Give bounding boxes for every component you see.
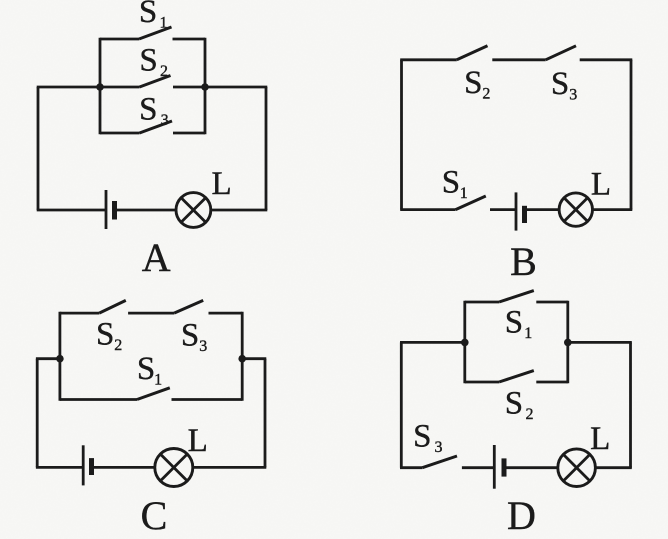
switch S1 (circuit B): blade, wire [456,196,516,210]
svg-text:A: A [142,235,171,280]
wire D bottom left [400,466,422,469]
wire A bottom right [211,209,267,212]
wire B top left [400,58,457,61]
svg-text:2: 2 [114,337,122,354]
svg-text:1: 1 [524,325,532,342]
svg-text:2: 2 [482,86,490,103]
switch S2 (circuit A): wire, blade [100,76,205,88]
svg-text:3: 3 [161,112,169,129]
wire C bottom left [36,466,83,469]
svg-text:S: S [139,92,157,128]
label S2 (circuit D) [505,386,534,424]
battery (circuit D) [494,445,558,489]
wire D left connector of parallel branches [463,301,466,384]
battery (circuit C) [83,445,155,485]
wire B bottom right [593,208,633,211]
lamp L (circuit C) [155,449,193,487]
svg-text:3: 3 [199,338,207,355]
node D-left junction [461,339,469,347]
wire C right vertical [264,359,267,468]
wire A right connector of parallel switches [204,38,207,135]
switch S1 (circuit C): wire, blade, wire [60,388,242,400]
node C-right junction [238,355,246,363]
svg-text:2: 2 [526,406,534,423]
switch S2 (circuit B): blade, wire [457,46,546,60]
svg-text:L: L [212,166,232,202]
label S1 (circuit A) [139,0,168,32]
label S3 (circuit A) [139,92,168,130]
svg-text:L: L [188,423,208,459]
circuit C outer loop: wire left vertical [36,359,39,468]
node D-right junction [564,339,572,347]
wire C right connector of parallel branches [241,312,244,401]
switch S2 (circuit C): wire, blade [60,300,174,313]
wire A bottom left [37,209,106,212]
label S2 (circuit C) [96,316,122,354]
node A-left junction [96,83,104,91]
wire A right vertical [265,87,268,210]
wire C bottom right [193,466,266,469]
lamp L (circuit A) [176,193,211,228]
circuit D outer loop: wire left vertical [400,342,403,467]
svg-text:S: S [137,351,155,387]
svg-text:C: C [141,493,168,538]
switch S2 (circuit D): wire, blade, wire [465,371,568,382]
wire D bottom right [595,466,631,469]
wire D right stub from node [568,341,632,344]
wire B bottom left [400,208,455,211]
svg-text:S: S [505,386,523,422]
lamp L (circuit D) [558,449,596,487]
svg-text:1: 1 [460,185,468,202]
svg-text:S: S [551,66,569,102]
svg-text:3: 3 [435,439,443,456]
label S1 (circuit C) [137,351,162,389]
label S3 (circuit C) [181,317,207,355]
circuit A outer loop: wire left vertical [37,87,40,210]
label S3 (circuit B) [551,66,577,104]
wire B right vertical [630,60,633,210]
label S3 (circuit D) [413,418,442,456]
svg-text:2: 2 [160,63,168,80]
switch S3 (circuit D): blade, wire [422,456,494,468]
svg-text:S: S [139,43,157,79]
svg-text:S: S [464,65,482,101]
switch S1 (circuit A): wire, blade [100,27,205,39]
wire C right stub from node [242,357,266,360]
svg-text:S: S [181,317,199,353]
svg-text:S: S [505,305,523,341]
battery (circuit B) [516,192,559,230]
svg-text:S: S [96,316,114,352]
label S1 (circuit B) [442,165,468,203]
svg-text:B: B [510,239,537,284]
svg-text:3: 3 [569,87,577,104]
node C-left junction [56,355,64,363]
wire A left connector of parallel switches [99,38,102,135]
switch S3 (circuit A): wire, blade [100,121,205,133]
svg-text:D: D [507,493,536,538]
wire C left connector of parallel branches [59,312,62,401]
svg-text:S: S [413,418,431,454]
svg-text:S: S [139,0,157,30]
label S2 (circuit B) [464,65,490,103]
switch S3 (circuit B): blade, wire [546,46,633,60]
circuit B outer loop: wire left vertical [400,60,403,210]
wire C left stub to node [36,357,60,360]
wire D left stub to node [400,341,465,344]
label S2 (circuit A) [139,43,168,81]
svg-text:L: L [590,421,610,457]
label S1 (circuit D) [505,305,533,343]
wire A rail left [37,86,100,89]
svg-text:1: 1 [160,15,168,32]
battery (circuit A) [106,190,176,229]
svg-text:S: S [442,165,460,201]
lamp L (circuit B) [559,193,592,226]
wire D right vertical [629,342,632,467]
switch S3 (circuit C): blade, wire [174,300,242,313]
node A-right junction [201,83,209,91]
switch S1 (circuit D): wire, blade, wire [465,291,568,302]
wire A rail right [205,86,267,89]
wire D right connector of parallel branches [566,301,569,384]
svg-text:1: 1 [154,371,162,388]
svg-text:L: L [591,166,611,202]
